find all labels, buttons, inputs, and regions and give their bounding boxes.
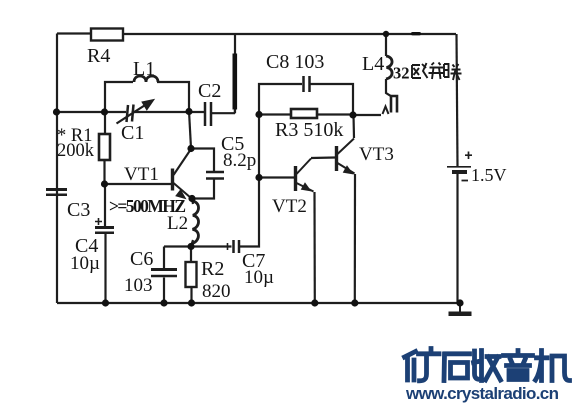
junction node VT1 emitter [188,195,195,202]
svg-text:www.crystalradio.cn: www.crystalradio.cn [405,384,559,403]
wire VT3 emitter down [354,174,356,303]
capacitor C8 [304,76,310,92]
wire C6 top lead [163,247,165,269]
svg-text:C1: C1 [121,122,144,144]
watermark logo char ji [536,351,570,381]
wire L2 to node [191,240,193,247]
wire main node line y=112 [57,112,235,113]
capacitor C2 [205,102,211,126]
svg-text:R3 510k: R3 510k [275,119,343,141]
wire tank to VT1 collector node [189,111,191,148]
transistor VT3 [337,139,355,174]
watermark logo char shou [474,351,501,381]
svg-text:C8 103: C8 103 [266,51,324,73]
resistor R2 [186,262,197,287]
wire antenna base link [234,110,236,113]
junction node bus C8 left [255,111,262,118]
wire VT2 emitter down [313,192,315,303]
svg-text:1.5V: 1.5V [471,165,507,185]
wire right rail upper [457,34,458,166]
ground [449,303,472,314]
wire C6 bottom lead [163,278,165,304]
wire R2 bottom lead [190,287,192,303]
svg-text:VT3: VT3 [359,144,394,165]
junction node L4 top [383,31,389,37]
wire antenna drop [234,34,236,113]
wire emitter VT1 to L2 [192,199,193,205]
wire tank loop left [105,82,133,112]
junction node VT1 collector [187,145,194,152]
wire C4 to bottom rail [104,233,106,303]
junction node R1 top [101,108,108,115]
capacitor C1 variable [117,100,155,124]
wire bottom rail [57,302,461,304]
svg-text:VT1: VT1 [124,164,159,185]
plus mark C4 [95,218,102,225]
junction node VT1 base [101,180,108,187]
wire node row y=246 [164,179,259,247]
watermark logo char yin [504,351,533,380]
svg-text:R4: R4 [87,45,110,67]
svg-text:10µ: 10µ [244,267,274,288]
svg-text:R2: R2 [201,258,224,280]
resistor R1 [99,134,110,160]
wire R1 bottom lead [103,160,105,184]
junction node bottom battery [456,299,463,306]
plus mark battery [465,152,472,160]
wire base feed VT1 [105,183,172,185]
watermark logo char kuang [405,349,440,381]
wire right rail lower [456,173,458,303]
wire VT2 collector to VT3 base [311,156,335,159]
svg-text:C2: C2 [198,80,221,102]
wire vertical bus x=259 [259,84,302,177]
wire jack feed [353,114,381,116]
junction node bottom R2 [188,299,195,306]
wire VT2 base lead [259,176,294,178]
resistor R4 [91,29,123,41]
junction node tank right [185,108,192,115]
capacitor C4 electrolytic [95,228,114,233]
wire R3 left lead [259,113,291,115]
svg-text:10µ: 10µ [70,253,100,274]
svg-text:C6: C6 [130,248,153,270]
junction node L2 bottom [187,243,194,250]
wire L4 top lead [385,34,387,56]
junction node bottom VT3 [351,299,358,306]
svg-text:L2: L2 [167,213,188,234]
capacitor C6 [151,270,177,277]
svg-text:32: 32 [393,64,410,83]
inductor L2 [192,201,199,244]
svg-text:VT2: VT2 [272,196,307,217]
wire L4 bottom lead [386,79,391,96]
minus mark battery [462,180,469,182]
svg-text:820: 820 [202,281,231,302]
capacitor C5 [206,172,224,179]
junction node bottom C4 [102,299,109,306]
antenna thick bar [233,54,238,110]
transistor VT1 [173,149,192,199]
wire left rail [56,34,58,304]
label CJK 32ohm-parallel glyphs [412,63,462,81]
plus mark C7 [224,243,231,250]
svg-text:L4: L4 [362,53,384,75]
svg-text:L1: L1 [133,58,155,80]
inductor L4 [386,56,392,79]
watermark logo char shi [444,354,470,381]
junction node bottom C6 [160,299,167,306]
wire C8 right to R3 node [310,84,354,114]
wire R3 right lead [318,113,353,115]
svg-text:103: 103 [124,275,153,296]
junction node R3 right [349,111,356,118]
resistor R3 [291,109,317,118]
wire top rail [57,32,456,35]
capacitor C3 [46,190,67,195]
capacitor C7 electrolytic [234,240,240,253]
battery B1 [447,167,471,172]
svg-text:200k: 200k [57,141,95,161]
wire R1 top lead [104,112,106,134]
wire C5 top link [191,149,214,172]
wire C5 bottom link [192,179,214,199]
wire VT3 collector up [352,115,355,138]
svg-text:8.2p: 8.2p [223,150,256,171]
blob on top rail [411,32,421,35]
earphone jack [383,96,398,114]
transistor VT2 [296,159,314,192]
wire tank loop right [157,82,189,111]
wire R1 line to C4 [104,184,106,227]
junction node left rail [53,108,60,115]
junction node VT2 base [255,174,262,181]
svg-text:C3: C3 [67,199,90,221]
wire R2 top lead [190,247,192,263]
junction node bottom VT2 [311,299,318,306]
inductor L1 [134,76,158,82]
